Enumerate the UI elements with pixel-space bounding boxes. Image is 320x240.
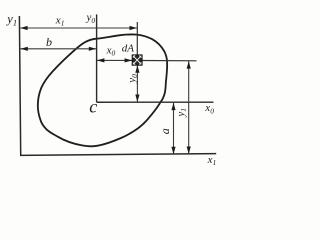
x1 axis (bottom horizontal): [20, 154, 216, 156]
a dimension line (right of C): [173, 103, 175, 155]
svg-text:c: c: [89, 97, 97, 117]
x1 dimension right arrow: [130, 26, 137, 30]
y1 axis (left vertical): [19, 16, 20, 155]
x0 dimension line: [97, 59, 132, 61]
x0 dimension right arrow: [125, 58, 132, 62]
area blob outline: [38, 34, 167, 146]
horizontal extension line right of dA: [142, 60, 197, 62]
y0 axis (vertical through C): [96, 14, 98, 102]
b dimension left arrow: [20, 47, 27, 51]
vertical extension line above dA: [136, 22, 138, 55]
y0 dimension up arrow: [135, 65, 139, 72]
x0 dimension left arrow: [97, 58, 104, 62]
b dimension right arrow: [89, 47, 96, 51]
b dimension line: [20, 48, 96, 50]
y1 dimension down arrow: [187, 147, 191, 154]
y1 dimension up arrow: [187, 61, 191, 68]
x1 dimension left arrow: [20, 26, 27, 30]
svg-text:b: b: [46, 35, 52, 49]
y0 dimension line (below dA): [136, 65, 138, 102]
y1 dimension line (right): [188, 61, 190, 154]
element dA hatched square: [132, 55, 142, 65]
svg-text:dA: dA: [122, 43, 135, 55]
y0 dimension down arrow: [135, 95, 139, 102]
x1 dimension line: [20, 27, 137, 29]
x0 axis (horizontal from C): [97, 101, 214, 103]
svg-text:a: a: [158, 128, 172, 134]
a dimension up arrow: [171, 103, 175, 110]
a dimension down arrow: [171, 147, 175, 154]
